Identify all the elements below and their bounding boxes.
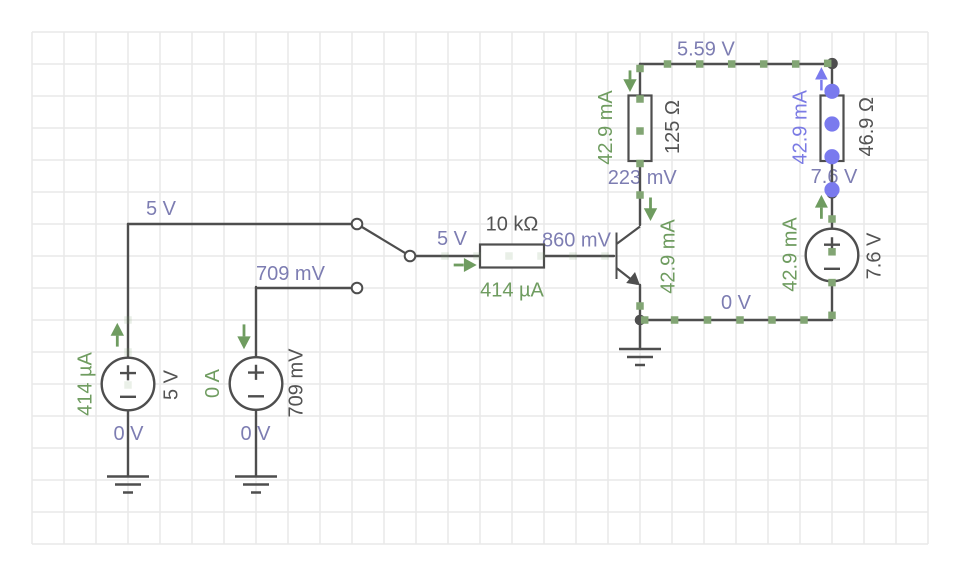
- wire V2 top vertical: [255, 287, 257, 358]
- svg-text:709 mV: 709 mV: [286, 348, 308, 418]
- svg-text:46.9 Ω: 46.9 Ω: [856, 97, 878, 156]
- green arrow up at V3: [815, 195, 828, 219]
- svg-text:5.59 V: 5.59 V: [677, 39, 735, 61]
- green arrow down at R2 top: [623, 70, 636, 92]
- node dot between R3 and V3: [826, 187, 837, 198]
- resistor R3 46.9 box: [821, 96, 844, 162]
- blue current dots R3: [824, 84, 839, 198]
- voltage source V2 709mV: [230, 357, 283, 410]
- svg-text:0 V: 0 V: [721, 292, 752, 314]
- wire R1 to base: [544, 255, 614, 257]
- svg-text:414 µA: 414 µA: [480, 280, 544, 302]
- ground G3: [619, 320, 661, 365]
- svg-text:223 mV: 223 mV: [608, 167, 678, 189]
- resistor R2 125 box: [629, 96, 652, 162]
- voltage source V1 5V: [102, 358, 155, 411]
- wire V1 top vertical: [127, 224, 129, 358]
- svg-text:5 V: 5 V: [437, 228, 468, 250]
- svg-text:125 Ω: 125 Ω: [662, 100, 684, 154]
- green arrow down at collector: [644, 198, 657, 222]
- wire bottom horizontal 0V: [640, 319, 832, 321]
- svg-text:860 mV: 860 mV: [542, 230, 612, 252]
- wire emitter to junction: [639, 285, 641, 320]
- ground G2: [235, 477, 277, 493]
- green arrow V2 down: [237, 324, 250, 349]
- wire V3 bottom vertical: [831, 281, 833, 320]
- switch post bottom circle: [352, 283, 363, 294]
- green current squares: [636, 60, 836, 324]
- svg-text:42.9 mA: 42.9 mA: [595, 90, 617, 165]
- svg-text:42.9 mA: 42.9 mA: [790, 89, 812, 164]
- wire top left vertical to R2: [639, 64, 641, 96]
- wire switch to R1: [414, 255, 480, 257]
- svg-text:42.9 mA: 42.9 mA: [658, 219, 680, 294]
- wire V2 bottom to ground: [255, 409, 257, 476]
- svg-text:10 kΩ: 10 kΩ: [486, 214, 539, 236]
- ground G1: [107, 477, 149, 493]
- svg-text:5 V: 5 V: [146, 198, 177, 220]
- resistor R1 10k box: [480, 245, 544, 268]
- wire R2 bottom to collector: [639, 160, 641, 225]
- node dot top right: [827, 58, 838, 69]
- voltage source V3 7.6V: [806, 229, 859, 282]
- junction node dot emitter: [635, 315, 646, 326]
- green arrow right after switch: [454, 258, 477, 272]
- svg-text:7.6 V: 7.6 V: [864, 232, 886, 279]
- transistor Q1: [617, 227, 641, 286]
- wire 709mV horizontal to switch: [256, 287, 352, 289]
- switch moving contact circle: [405, 251, 416, 262]
- switch SW1 lever: [357, 224, 410, 256]
- wire V3 top to R3: [831, 160, 833, 229]
- wire V1 bottom to ground: [127, 410, 129, 476]
- switch post top circle: [352, 219, 363, 230]
- green arrow V1 up: [111, 323, 124, 347]
- blue arrow up at R3: [815, 67, 828, 90]
- svg-text:42.9 mA: 42.9 mA: [780, 217, 802, 292]
- wire R3 top vertical: [831, 64, 833, 96]
- faint current squares low current path: [124, 252, 609, 389]
- wire 5V horizontal to switch: [128, 223, 352, 225]
- wire top horizontal node 5.59V: [640, 63, 832, 65]
- svg-text:414 µA: 414 µA: [75, 351, 97, 415]
- svg-text:0 A: 0 A: [202, 368, 224, 398]
- svg-text:5 V: 5 V: [161, 369, 183, 400]
- svg-text:709 mV: 709 mV: [256, 263, 326, 285]
